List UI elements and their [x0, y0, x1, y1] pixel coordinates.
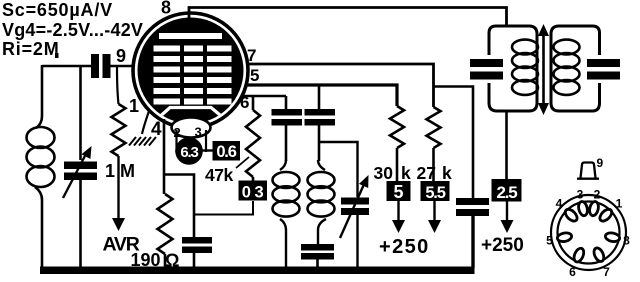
heater supply disc 6.3 — [175, 137, 203, 165]
resistor 47k — [246, 110, 260, 177]
value box 5.5 — [421, 181, 450, 201]
resistor 30k — [390, 106, 404, 148]
svg-text:2: 2 — [594, 188, 601, 202]
wire anode pin 8 to IFT2 — [189, 8, 507, 27]
svg-text:Sc=650µA/V: Sc=650µA/V — [2, 0, 113, 20]
wire pin 1 to chassis — [142, 105, 151, 134]
svg-text:9: 9 — [597, 156, 604, 170]
coil IFT1 primary — [273, 160, 300, 268]
op-amp: vacuum tube V1 envelope — [133, 13, 248, 128]
svg-text:5.5: 5.5 — [425, 184, 445, 202]
socket top cap symbol — [577, 163, 599, 179]
svg-text:2.5: 2.5 — [496, 183, 517, 202]
svg-text:1: 1 — [129, 96, 139, 116]
svg-text:27: 27 — [417, 163, 436, 183]
svg-text:7: 7 — [247, 46, 256, 65]
wire grid branch down to 1M — [117, 67, 119, 104]
svg-text:5: 5 — [546, 234, 553, 248]
wire disc to 0.6 box — [202, 149, 214, 151]
wire pin 7 to 27k — [248, 64, 434, 107]
wire ground bus — [40, 267, 475, 275]
tube base ellipse — [172, 118, 211, 138]
svg-text:M: M — [120, 161, 135, 181]
svg-text:9: 9 — [116, 46, 126, 66]
arrow +250 left — [397, 201, 399, 221]
wire heater pins — [175, 130, 177, 152]
tube grids dashes — [154, 46, 232, 105]
wire screen bypass — [434, 87, 474, 199]
capacitor variable padder — [319, 142, 358, 197]
coil IFT2 secondary loops — [554, 40, 580, 95]
arrow IFT2 tuning — [542, 32, 545, 106]
svg-text:5: 5 — [393, 182, 403, 202]
wire top-left horizontal to coupling cap — [42, 65, 91, 68]
resistor 1M — [112, 104, 126, 156]
capacitor IFT1 right — [318, 85, 321, 109]
svg-text:8: 8 — [623, 234, 630, 248]
resistor 27k — [427, 107, 441, 148]
value box 0.3 — [239, 181, 268, 201]
transformer IFT2 primary box — [470, 26, 537, 111]
capacitor screen bypass — [456, 198, 489, 205]
value box 5 — [387, 181, 411, 201]
wire cathode branch right — [164, 175, 194, 238]
capacitor coupling C-grid (series) — [91, 54, 99, 78]
svg-text:k: k — [401, 163, 411, 183]
coil IFT2 primary loops — [512, 40, 538, 95]
wire pin 5 to 30k — [246, 85, 397, 106]
tube cathode shield trapezoid — [156, 108, 226, 121]
svg-text:30: 30 — [374, 163, 394, 183]
capacitor IFT1 left — [285, 96, 288, 109]
AVR arrow — [117, 156, 119, 220]
wire pin 4 down — [163, 119, 166, 194]
svg-text:7: 7 — [603, 265, 610, 279]
capacitor cathode bypass — [182, 237, 212, 244]
value box 0.6 — [213, 141, 241, 161]
svg-text:Vg4=-2.5V...-42V: Vg4=-2.5V...-42V — [2, 20, 143, 40]
svg-text:1: 1 — [105, 161, 115, 181]
svg-text:4: 4 — [556, 197, 563, 211]
svg-text:3: 3 — [577, 188, 584, 202]
svg-text:6.3: 6.3 — [180, 144, 198, 161]
svg-text:k: k — [442, 163, 452, 183]
svg-text:3: 3 — [195, 125, 202, 140]
tube anode bar — [159, 33, 222, 39]
coil IFT1 secondary — [308, 160, 335, 244]
arrow +250 right — [433, 201, 435, 221]
value box 2.5 — [492, 179, 522, 202]
connector tube socket bottom view — [551, 195, 626, 270]
svg-text:+250: +250 — [481, 235, 524, 256]
wire B+ tap — [505, 111, 508, 179]
wire grid to tube pin 9 — [111, 65, 134, 68]
svg-text:8: 8 — [161, 0, 171, 18]
svg-text:1: 1 — [616, 197, 623, 211]
transformer IFT2 secondary box — [551, 26, 620, 111]
capacitor variable tuning C-ant — [63, 66, 97, 268]
svg-text:+250: +250 — [379, 236, 430, 258]
socket pins — [557, 201, 621, 264]
wire pin 6 — [242, 95, 286, 98]
arrow +250 B+ — [506, 202, 508, 221]
svg-text:4: 4 — [151, 119, 162, 140]
svg-text:6: 6 — [569, 265, 576, 279]
svg-text:0.6: 0.6 — [216, 143, 236, 161]
wire cathode to 0.3 box — [194, 201, 253, 215]
svg-text:47k: 47k — [205, 165, 233, 185]
coil L1 antenna — [27, 65, 55, 268]
capacitor IFT1 bottom — [301, 244, 334, 251]
resistor 190 ohm — [158, 194, 173, 254]
ground chassis hatch — [129, 137, 156, 146]
svg-text:0 3: 0 3 — [242, 184, 264, 202]
svg-text:5: 5 — [250, 66, 259, 85]
svg-text:Ri=2M: Ri=2M — [2, 39, 60, 59]
